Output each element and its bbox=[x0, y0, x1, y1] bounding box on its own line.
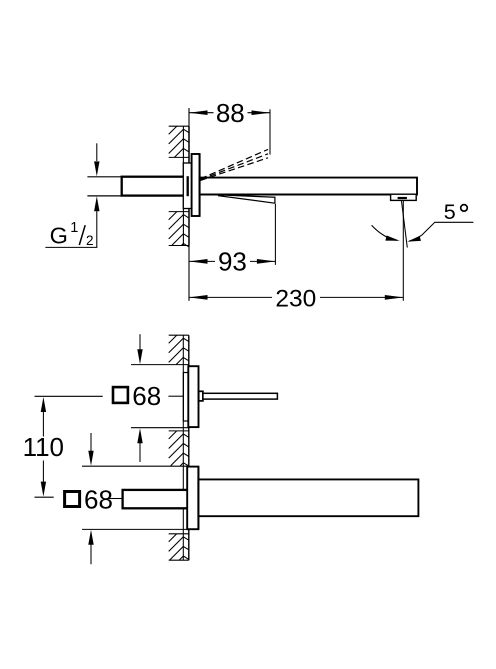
svg-text:G: G bbox=[50, 223, 68, 249]
svg-text:93: 93 bbox=[218, 247, 247, 277]
svg-text:88: 88 bbox=[216, 98, 245, 128]
svg-text:68: 68 bbox=[84, 485, 113, 515]
svg-text:1: 1 bbox=[70, 220, 78, 236]
svg-text:2: 2 bbox=[86, 233, 94, 248]
svg-text:230: 230 bbox=[275, 286, 316, 313]
svg-text:110: 110 bbox=[23, 432, 64, 462]
svg-text:68: 68 bbox=[132, 381, 161, 411]
svg-text:5: 5 bbox=[444, 200, 456, 224]
